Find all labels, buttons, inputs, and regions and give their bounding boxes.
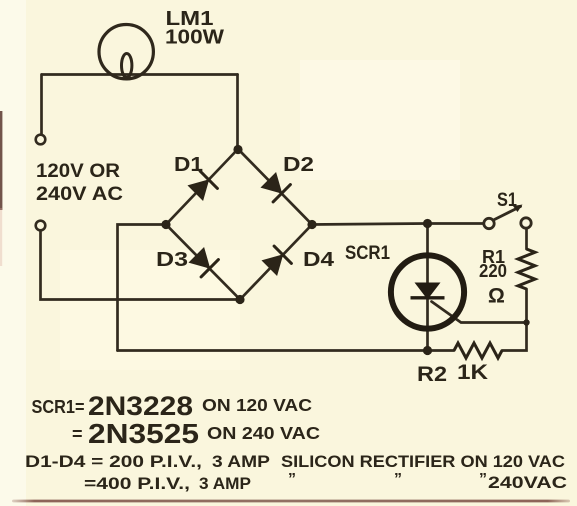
node SCR cathode rail [423,346,432,355]
diode D4 [263,246,292,275]
node bridge bottom [235,295,244,304]
page edge streak left [0,111,2,210]
svg-text:240VAC: 240VAC [488,473,567,492]
node gate R1 R2 junction [523,319,529,325]
wire left drop to terminal [40,75,43,135]
switch S1 right contact [521,218,531,228]
node bridge right [307,220,316,229]
terminal T1 [36,135,46,145]
svg-text:D2: D2 [283,154,314,176]
wire right node to switch [312,224,484,225]
wire SCR anode [426,224,429,284]
svg-text:=400 P.I.V.,: =400 P.I.V., [84,474,190,493]
resistor R2 zigzag [454,343,502,358]
svg-text:3 AMP: 3 AMP [199,474,251,493]
svg-text:ON 240 VAC: ON 240 VAC [207,423,320,443]
svg-text:R2: R2 [417,363,447,386]
node bridge top [233,145,242,154]
wire R1 bottom to gate node to R2 [502,289,527,351]
switch S1 lever [494,207,521,221]
SCR triangle [415,283,441,300]
wire bottom rail [118,349,455,352]
svg-text:240V AC: 240V AC [36,184,123,205]
diode D3 [190,248,219,277]
SCR U1 circle [391,255,464,328]
svg-text:ON 120 VAC: ON 120 VAC [202,395,312,415]
svg-text:”: ” [288,471,296,488]
wire top rail [42,73,238,76]
svg-text:220: 220 [479,261,507,281]
svg-text:”: ” [479,471,487,488]
svg-text:120V OR: 120V OR [36,161,120,182]
wire left node to bottom rail [118,225,167,351]
node SCR anode tap [423,219,432,228]
node bridge left [161,220,170,229]
svg-text:SILICON RECTIFIER ON 120 VAC: SILICON RECTIFIER ON 120 VAC [281,452,565,471]
wire from terminal T2 to bridge bottom node [41,231,241,300]
terminal T2 [36,221,46,231]
svg-text:D1-D4 = 200 P.I.V.,: D1-D4 = 200 P.I.V., [25,452,202,471]
svg-text:D3: D3 [156,249,188,271]
svg-text:3 AMP: 3 AMP [212,452,270,471]
diode D2 [262,173,291,202]
SCR cathode bar [411,296,445,299]
svg-text:S1: S1 [497,190,517,211]
switch S1 left contact [484,218,494,228]
resistor R1 zigzag [518,249,535,289]
svg-text:2N3228: 2N3228 [88,391,193,421]
paper tint patches [0,0,26,506]
svg-text:1K: 1K [457,361,488,384]
svg-text:SCR1=: SCR1= [32,397,85,417]
switch S1 lever tip [513,205,523,213]
svg-text:Ω: Ω [488,285,505,308]
wire SCR gate [432,302,527,323]
diode D1 [189,171,218,200]
svg-text:”: ” [394,471,402,488]
svg-text:SCR1: SCR1 [345,243,390,264]
lamp LM1 [99,25,153,79]
svg-text:=: = [72,424,83,444]
wire switch to R1 [525,229,528,250]
svg-text:D1: D1 [174,154,203,176]
svg-text:D4: D4 [303,249,335,271]
svg-text:100W: 100W [165,27,224,49]
wire bridge diamond [166,149,312,300]
wire right drop to bridge top [236,75,239,150]
svg-text:2N3525: 2N3525 [88,418,199,449]
wire SCR cathode to rail [426,299,429,351]
